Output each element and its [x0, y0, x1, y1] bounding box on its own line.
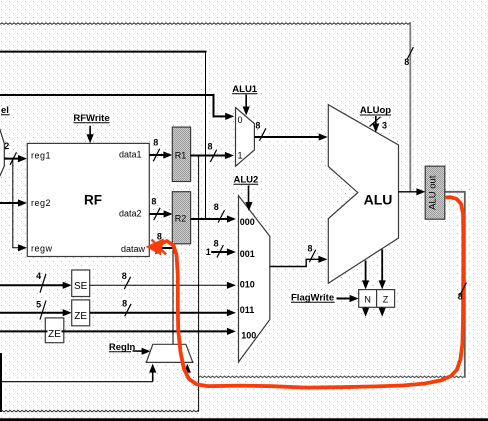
svg-text:ALU out: ALU out: [428, 175, 439, 210]
slash width 8 on R2 output: [214, 202, 225, 223]
label ALU2: [233, 175, 258, 186]
wire immediate to SE: [0, 282, 72, 289]
wire branch reg1-select down to regw: [13, 159, 27, 252]
mux U1: [236, 108, 255, 167]
wire from top bus 1 down to R2 output: [205, 52, 207, 219]
slash width 8 on data1 wire: [153, 137, 159, 161]
slash width 8 on data2 wire: [151, 196, 160, 220]
wire feedback input into mux U4: [184, 364, 191, 378]
wire ZE to mux U2 input 011: [90, 309, 236, 316]
svg-text:1: 1: [206, 247, 211, 257]
red annotation feedback path: [159, 197, 463, 387]
svg-text:0: 0: [238, 115, 243, 125]
zero extend ZE lower: [45, 318, 64, 343]
wire constant 1 to mux U2 input 001: [206, 247, 236, 257]
slash width 8 on dataw wire: [156, 231, 162, 254]
svg-text:000: 000: [240, 217, 255, 227]
svg-text:Z: Z: [383, 294, 389, 304]
svg-text:SE: SE: [74, 281, 88, 292]
wire ALU to flag Z: [379, 249, 386, 289]
slash width 8 on mux U1 output: [255, 121, 266, 141]
svg-text:5: 5: [36, 299, 41, 309]
svg-text:ZE: ZE: [74, 311, 87, 322]
svg-text:8: 8: [214, 238, 219, 248]
svg-text:N: N: [364, 294, 371, 304]
wire ALUout feedback right and down: [445, 192, 465, 378]
flag registers N and Z: [359, 290, 395, 308]
svg-text:data2: data2: [119, 208, 142, 218]
wavy torn-edge line (bottom right): [199, 376, 465, 377]
svg-text:RF: RF: [84, 193, 102, 208]
wire R1 output down to bottom: [198, 156, 200, 412]
svg-text:8: 8: [255, 121, 260, 131]
wire R2 to mux U2 input 000: [191, 215, 236, 222]
mux fragment at left edge: [0, 128, 4, 177]
svg-text:ZE: ZE: [48, 329, 61, 340]
slash bus width 8 on top bus: [404, 47, 413, 67]
wire mux U1 to ALU input A: [254, 133, 327, 140]
svg-text:8: 8: [207, 142, 212, 152]
wire RF data2 to R2: [149, 210, 172, 217]
svg-text:1: 1: [238, 151, 243, 161]
slash width 8 on SE output: [122, 271, 131, 289]
svg-text:8: 8: [307, 243, 312, 253]
label RFWrite: [73, 113, 109, 124]
wire RFWrite into RF: [87, 126, 94, 143]
svg-text:8: 8: [404, 57, 409, 67]
wire ALU2 select into mux U2: [245, 186, 252, 212]
slash width 8 on constant wire: [214, 238, 224, 257]
slash width 8 on R1 output: [207, 142, 216, 163]
wavy torn-edge line (bottom left): [0, 410, 199, 411]
label RegIn: [109, 342, 136, 353]
wavy torn-edge line (top): [0, 23, 410, 24]
wire top bus 1: [0, 51, 207, 53]
wire mux U4 output up to RF dataw: [172, 248, 174, 344]
svg-text:data1: data1: [119, 149, 142, 159]
wire top bus 2 to mux U1 input 0: [0, 95, 234, 120]
wire left input into mux U4: [0, 364, 156, 382]
op-amp style ALU U3: [328, 105, 398, 284]
svg-text:ALU: ALU: [364, 192, 393, 208]
sign extend SE: [72, 270, 90, 297]
label ZE lower box: [48, 327, 62, 340]
svg-text:R1: R1: [175, 150, 187, 160]
svg-text:reg1: reg1: [31, 150, 51, 160]
svg-text:3: 3: [382, 120, 387, 130]
svg-text:8: 8: [214, 202, 219, 212]
black line left edge: [0, 353, 2, 412]
svg-text:010: 010: [240, 279, 255, 289]
black strip bottom edge: [0, 418, 488, 421]
svg-text:reg2: reg2: [31, 198, 51, 208]
register R1: [172, 127, 190, 181]
svg-text:001: 001: [240, 249, 255, 259]
slash bus width 8 on feedback bus: [458, 283, 467, 302]
label el (cut): [1, 105, 10, 116]
wire ALU result to ALUout register: [399, 188, 426, 195]
wire RF data1 to R1: [149, 151, 172, 158]
wire flag N output: [362, 307, 369, 317]
red annotation arrowhead at dataw: [146, 238, 166, 255]
svg-text:dataw: dataw: [121, 244, 146, 254]
wire RegIn select into mux U4: [133, 348, 151, 355]
slash width 8 on mux U2 output: [307, 243, 315, 262]
svg-text:8: 8: [122, 271, 127, 281]
wire reg2 input: [0, 199, 27, 206]
svg-text:8: 8: [122, 298, 127, 308]
wire flag Z output: [379, 307, 386, 317]
register R2: [172, 192, 190, 244]
wire R1 to mux U1 input 1: [191, 152, 234, 159]
label FlagWrite: [291, 293, 335, 304]
wire ALU1 select into mux U1: [243, 95, 250, 116]
wire to mux U2 input 100: [0, 328, 236, 335]
label ALUop: [360, 105, 391, 116]
svg-text:2: 2: [4, 141, 9, 151]
wire immediate to ZE: [0, 309, 72, 316]
svg-text:8: 8: [151, 196, 156, 206]
svg-text:8: 8: [153, 137, 158, 147]
label ALU1: [232, 84, 258, 95]
slash width 4: [36, 271, 46, 293]
wire FlagWrite into flags: [337, 295, 359, 302]
svg-text:R2: R2: [175, 213, 187, 223]
register ALUout: [425, 166, 445, 219]
mux U4: [146, 344, 193, 362]
zero extend ZE upper: [72, 300, 90, 326]
svg-text:regw: regw: [31, 243, 53, 253]
svg-text:011: 011: [240, 305, 255, 315]
register file RF: [27, 143, 149, 256]
slash width 2 on reg1 wire: [4, 141, 16, 165]
slash width 5: [36, 299, 46, 319]
svg-text:8: 8: [458, 292, 463, 302]
svg-text:100: 100: [241, 330, 256, 340]
slash width 8 on ZE output: [122, 298, 131, 316]
bus from top to ALUout wire: [409, 24, 411, 192]
wire ALU to flag N: [362, 261, 369, 290]
wire into RF dataw: [150, 244, 173, 251]
wire mux U2 to ALU input B: [270, 256, 328, 267]
mux U2: [239, 196, 270, 362]
svg-text:4: 4: [36, 271, 41, 281]
wire ALUop select into ALU: [370, 116, 388, 133]
wire mux fragment to RF reg1: [4, 155, 27, 162]
wire SE to mux U2 input 010: [90, 282, 236, 289]
